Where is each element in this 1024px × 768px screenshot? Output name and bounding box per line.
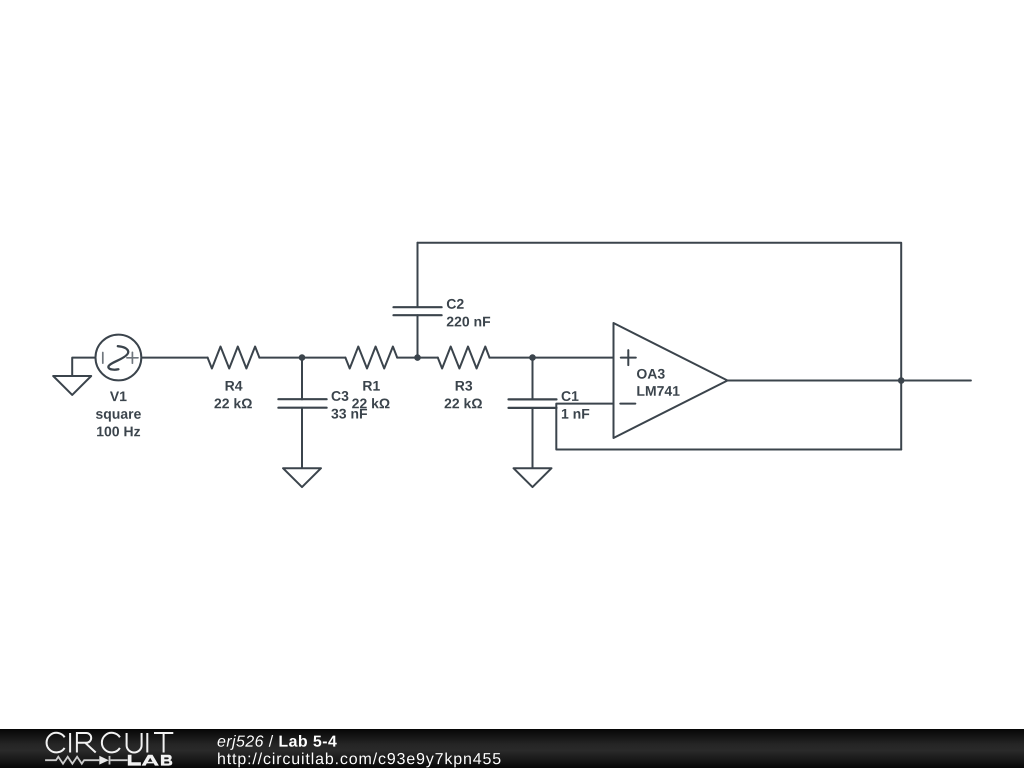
footer bar <box>0 729 1024 768</box>
capacitor C1 <box>509 399 557 408</box>
node B junction <box>414 354 421 361</box>
wire C2 top lead <box>417 243 419 307</box>
wire op-amp output <box>728 380 971 382</box>
wire C3 bottom lead to ground <box>301 408 303 468</box>
label OA3 LM741 <box>637 369 680 396</box>
capacitor C3 <box>278 399 326 408</box>
ground for V1 <box>53 376 91 395</box>
logo diode triangle <box>99 756 109 765</box>
wire V1 right lead <box>141 357 207 359</box>
wire C1 bottom lead to ground <box>532 408 534 468</box>
wire node A to R1 <box>302 357 345 359</box>
label V1 square 100 Hz <box>96 391 141 436</box>
footer title and url text <box>218 735 264 750</box>
logo resistor-diode wire <box>45 756 127 765</box>
ground for C1 <box>514 468 552 487</box>
wire top feedback run <box>418 243 902 381</box>
label R3 22 kOhm <box>445 381 482 408</box>
node output junction <box>898 377 905 384</box>
wire node C to op-amp noninverting input <box>533 357 614 359</box>
wire C2 bottom lead from node B <box>417 315 419 357</box>
wire C3 top lead from node A <box>301 358 303 400</box>
label C3 33 nF <box>331 391 367 419</box>
wire R1 to node B <box>397 357 417 359</box>
label R4 22 kOhm <box>214 381 251 408</box>
op-amp OA3 <box>614 323 728 438</box>
wire bottom feedback to inverting input <box>556 404 901 450</box>
wire C1 top lead from node C <box>532 358 534 400</box>
node A junction <box>299 354 306 361</box>
voltage source V1 <box>96 335 142 381</box>
wire R4 to node A <box>259 357 302 359</box>
resistor R4 <box>208 347 260 369</box>
label C1 1 nF <box>562 391 590 418</box>
ground for C3 <box>283 468 321 487</box>
node C junction <box>529 354 536 361</box>
capacitor C2 <box>394 307 442 315</box>
wire V1 left lead to ground <box>72 358 95 376</box>
label C2 220 nF <box>447 299 490 327</box>
resistor R3 <box>438 347 490 369</box>
resistor R1 <box>345 347 397 369</box>
label R1 22 kOhm <box>352 381 389 408</box>
logo CIRCUIT wordmark <box>47 733 174 753</box>
logo LAB text <box>128 755 173 766</box>
wire R3 to node C <box>490 357 533 359</box>
wire feedback down from output node <box>900 381 902 450</box>
wire node B to R3 <box>418 357 438 359</box>
